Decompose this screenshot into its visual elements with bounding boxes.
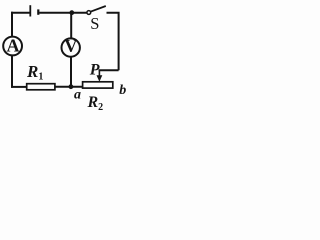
slider P xyxy=(97,70,103,82)
wire left side bottom xyxy=(11,55,13,88)
svg-text:S: S xyxy=(90,14,99,33)
wire battery to switch xyxy=(39,12,87,14)
resistor R1 body xyxy=(27,84,55,90)
battery cell xyxy=(30,5,38,16)
node J2 junction dot xyxy=(69,84,74,89)
svg-text:a: a xyxy=(74,87,81,102)
rheostat R2 body xyxy=(83,82,113,88)
svg-text:b: b xyxy=(119,83,126,98)
wire switch to top-right corner and right side down xyxy=(107,13,119,70)
wire bottom-left horizontal xyxy=(11,86,27,88)
svg-text:A: A xyxy=(7,35,20,55)
wire right to slider xyxy=(99,69,119,71)
wire voltmeter branch top xyxy=(70,13,72,39)
wire top-left horizontal xyxy=(11,12,30,14)
wire bottom middle (R1 to a) xyxy=(55,86,83,88)
wire voltmeter branch bottom xyxy=(70,57,72,87)
switch S xyxy=(87,6,106,14)
ammeter A xyxy=(3,35,22,55)
wire left side top xyxy=(11,12,13,38)
svg-text:V: V xyxy=(64,36,77,56)
node J1 junction dot xyxy=(69,10,74,15)
voltmeter V xyxy=(61,36,79,57)
svg-text:P: P xyxy=(89,62,100,79)
